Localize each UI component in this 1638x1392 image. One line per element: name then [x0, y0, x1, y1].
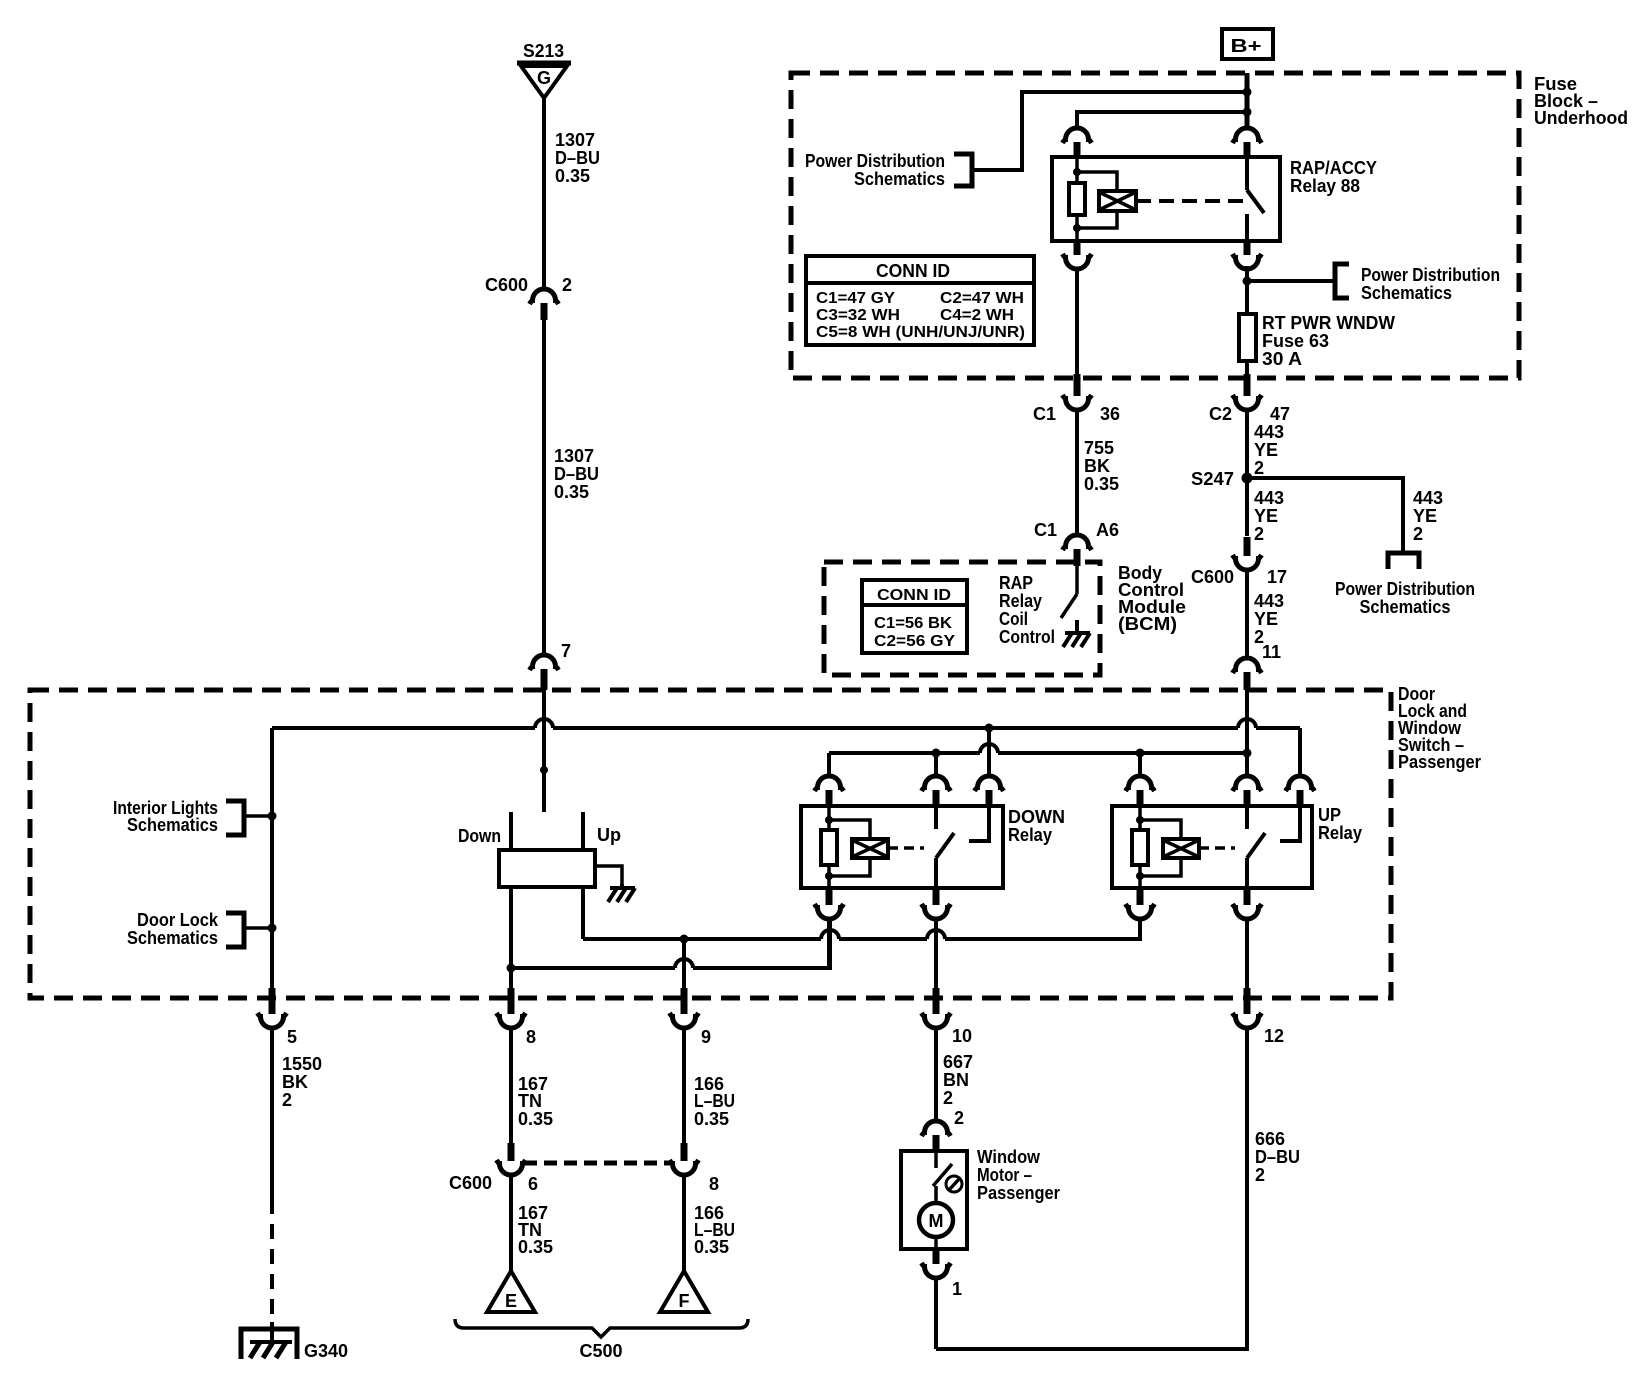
svg-text:C2=47 WH: C2=47 WH: [940, 290, 1024, 307]
battery feed B+: [1222, 29, 1273, 59]
svg-text:Coil: Coil: [999, 609, 1028, 629]
svg-text:CONN ID: CONN ID: [876, 261, 950, 281]
node junction at y=92: [1243, 88, 1252, 97]
wire 1307 D-BU 0.35 (S213 to C600): [544, 98, 600, 290]
svg-text:C3=32 WH: C3=32 WH: [816, 307, 900, 324]
svg-text:Relay: Relay: [999, 591, 1042, 611]
svg-text:Window: Window: [977, 1147, 1041, 1167]
svg-text:Underhood: Underhood: [1534, 108, 1628, 128]
svg-text:(BCM): (BCM): [1118, 614, 1177, 634]
svg-text:8: 8: [526, 1027, 536, 1047]
label Body Control Module (BCM): [1118, 563, 1186, 634]
svg-text:666: 666: [1255, 1129, 1285, 1149]
connector pin 11: [1233, 642, 1282, 690]
svg-text:Schematics: Schematics: [1361, 283, 1452, 303]
connector pin 2 (window motor): [922, 1108, 965, 1152]
svg-text:Down: Down: [458, 826, 501, 846]
svg-text:Relay: Relay: [1318, 823, 1362, 843]
svg-text:CONN ID: CONN ID: [877, 587, 951, 604]
wire DOWN relay coil return: [827, 917, 831, 968]
svg-text:C4=2 WH: C4=2 WH: [940, 307, 1014, 324]
svg-text:1307: 1307: [554, 446, 594, 466]
svg-text:0.35: 0.35: [518, 1237, 553, 1257]
label Interior Lights Schematics: [113, 798, 277, 835]
wire 1307 D-BU 0.35 (C600 to switch): [544, 320, 599, 656]
svg-text:12: 12: [1264, 1026, 1284, 1046]
svg-text:C600: C600: [485, 275, 528, 295]
svg-text:S213: S213: [523, 41, 564, 61]
svg-text:17: 17: [1267, 567, 1287, 587]
svg-text:9: 9: [701, 1027, 711, 1047]
svg-text:C5=8 WH (UNH/UNJ/UNR): C5=8 WH (UNH/UNJ/UNR): [816, 324, 1025, 341]
wire rocker Up output (line3): [583, 887, 1140, 944]
wire 755 BK 0.35: [1077, 408, 1119, 536]
svg-text:755: 755: [1084, 438, 1114, 458]
wire bus to Power Distribution Schematics (left): [974, 92, 1247, 170]
node junction line1/down-relay output: [985, 724, 994, 733]
svg-text:BK: BK: [1084, 456, 1110, 476]
svg-text:443: 443: [1254, 591, 1284, 611]
svg-text:Motor –: Motor –: [977, 1165, 1032, 1185]
svg-text:C2: C2: [1209, 404, 1232, 424]
svg-text:L–BU: L–BU: [694, 1091, 735, 1111]
table CONN ID (BCM): [862, 580, 967, 653]
label Door Lock and Window Switch - Passenger: [1398, 684, 1481, 772]
svg-text:S247: S247: [1191, 469, 1234, 489]
svg-text:0.35: 0.35: [694, 1237, 729, 1257]
svg-text:7: 7: [561, 641, 571, 661]
svg-text:2: 2: [954, 1108, 964, 1128]
wire B+ feed into fuse block: [1245, 73, 1250, 130]
ground (rocker): [620, 884, 624, 888]
svg-text:36: 36: [1100, 404, 1120, 424]
relay UP Relay: [1112, 728, 1362, 919]
svg-text:E: E: [505, 1291, 517, 1311]
svg-text:RAP/ACCY: RAP/ACCY: [1290, 158, 1377, 178]
svg-text:RAP: RAP: [999, 573, 1033, 593]
module Body Control Module (BCM) dashed outline: [824, 562, 1100, 675]
svg-text:UP: UP: [1318, 805, 1341, 825]
svg-text:YE: YE: [1413, 506, 1437, 526]
svg-text:443: 443: [1254, 422, 1284, 442]
connector pin 8: [497, 988, 537, 1047]
svg-text:C600: C600: [1191, 567, 1234, 587]
svg-text:TN: TN: [518, 1091, 542, 1111]
wire bus to relay outputs (line1): [272, 719, 1300, 728]
wire jumper inside C600: [524, 1161, 670, 1166]
connector pin 9: [670, 988, 712, 1047]
svg-text:A6: A6: [1096, 520, 1119, 540]
svg-text:0.35: 0.35: [554, 482, 589, 502]
svg-text:1550: 1550: [282, 1054, 322, 1074]
wire 443 YE 2 (C2-47 to S247): [1247, 408, 1284, 536]
connector C2 pin 47 (fuse block exit): [1209, 374, 1290, 424]
wire left ground bus: [270, 728, 274, 988]
switch RAP relay coil control (BCM internal): [1061, 566, 1077, 618]
connector C600 pin 17: [1191, 537, 1287, 587]
svg-text:C500: C500: [579, 1341, 622, 1361]
svg-text:10: 10: [952, 1026, 972, 1046]
wire DOWN relay output to pin 10: [934, 917, 938, 988]
svg-text:1307: 1307: [555, 130, 595, 150]
node junction to right schematics: [1243, 277, 1252, 286]
connector pin 12: [1233, 988, 1285, 1046]
svg-text:G: G: [537, 68, 551, 88]
wire UP relay coil return: [1138, 917, 1142, 939]
wire power feed pin 11 to relays: [1245, 690, 1249, 755]
svg-text:G340: G340: [304, 1341, 348, 1361]
wire motor return to pin 12: [936, 1026, 1247, 1349]
svg-text:D–BU: D–BU: [555, 148, 600, 168]
svg-text:D–BU: D–BU: [554, 464, 599, 484]
wire branch to Power Distribution Schematics (right): [1247, 264, 1500, 303]
svg-text:0.35: 0.35: [555, 166, 590, 186]
motor Window Motor - Passenger: [901, 1147, 1060, 1249]
svg-text:Schematics: Schematics: [854, 169, 945, 189]
ground G340: [241, 1322, 348, 1361]
door lock and window switch dashed outline: [30, 690, 1391, 998]
svg-text:Schematics: Schematics: [1360, 597, 1451, 617]
svg-text:Power Distribution: Power Distribution: [805, 151, 945, 171]
svg-text:667: 667: [943, 1052, 973, 1072]
connector pin 1 (window motor): [922, 1249, 963, 1299]
ground (BCM internal): [1075, 620, 1079, 633]
svg-text:D–BU: D–BU: [1255, 1147, 1300, 1167]
svg-text:Up: Up: [597, 825, 621, 845]
label Power Distribution Schematics (fuse block left): [805, 151, 972, 189]
wire 166 L-BU 0.35 (lower): [684, 1173, 735, 1271]
svg-text:C1: C1: [1033, 404, 1056, 424]
label Door Lock Schematics: [127, 910, 277, 948]
wire to RAP relay coil: [1077, 112, 1247, 130]
svg-text:Relay: Relay: [1008, 825, 1052, 845]
svg-text:C1=56 BK: C1=56 BK: [874, 615, 952, 632]
node splice S247: [1191, 469, 1253, 489]
svg-text:443: 443: [1413, 488, 1443, 508]
ground destination triangle E: [487, 1271, 535, 1312]
svg-text:2: 2: [562, 275, 572, 295]
switch window rocker Down/Up: [458, 812, 622, 887]
svg-text:C1: C1: [1034, 520, 1057, 540]
svg-text:2: 2: [1254, 458, 1264, 478]
wire line2 coil feed bus: [829, 744, 1252, 758]
label Fuse Block - Underhood: [1534, 74, 1628, 128]
connector pin 10: [922, 988, 973, 1046]
wire 167 TN 0.35 (lower): [511, 1173, 553, 1271]
wire 666 D-BU 2: [1255, 1129, 1300, 1185]
table CONN ID (fuse block): [806, 256, 1034, 345]
svg-text:0.35: 0.35: [518, 1109, 553, 1129]
connector C600 pin 8: [670, 1143, 720, 1194]
connector bracket C500: [455, 1319, 748, 1361]
svg-text:Power Distribution: Power Distribution: [1335, 579, 1475, 599]
connector C600 pin 2: [485, 275, 572, 320]
fuse RT PWR WNDW Fuse 63 30 A: [1239, 313, 1395, 376]
relay RAP/ACCY Relay 88: [1052, 128, 1377, 269]
svg-text:30 A: 30 A: [1262, 349, 1302, 369]
ground S213 (G) triangle: [517, 41, 571, 98]
svg-text:Door Lock: Door Lock: [137, 910, 219, 930]
svg-text:2: 2: [1254, 524, 1264, 544]
svg-text:6: 6: [528, 1174, 538, 1194]
connector pin 7: [530, 641, 572, 690]
connector C1 pin 36 (fuse block exit): [1033, 374, 1120, 424]
wire to connector 9: [682, 939, 686, 988]
svg-text:C600: C600: [449, 1173, 492, 1193]
svg-text:YE: YE: [1254, 609, 1278, 629]
svg-text:47: 47: [1270, 404, 1290, 424]
svg-text:C1=47 GY: C1=47 GY: [816, 290, 895, 307]
svg-text:RT PWR WNDW: RT PWR WNDW: [1262, 313, 1395, 333]
svg-text:Schematics: Schematics: [127, 928, 218, 948]
wire RAP coil control output: [1075, 267, 1079, 376]
svg-text:Passenger: Passenger: [977, 1183, 1060, 1203]
svg-text:11: 11: [1262, 642, 1281, 662]
svg-text:2: 2: [943, 1088, 953, 1108]
wire UP relay output to pin 12: [1245, 917, 1249, 988]
ground destination triangle F: [660, 1271, 708, 1312]
wire 667 BN 2: [936, 1026, 973, 1122]
svg-text:DOWN: DOWN: [1008, 807, 1065, 827]
svg-text:443: 443: [1254, 488, 1284, 508]
wire RAP switch output: [1245, 266, 1249, 314]
wire rocker Down output: [507, 887, 831, 988]
svg-text:0.35: 0.35: [694, 1109, 729, 1129]
svg-text:8: 8: [709, 1174, 719, 1194]
label RAP Relay Coil Control: [999, 573, 1055, 647]
wire 167 TN 0.35 (upper): [511, 1026, 553, 1143]
svg-text:0.35: 0.35: [1084, 474, 1119, 494]
svg-text:Passenger: Passenger: [1398, 752, 1481, 772]
fuse block dashed outline: [791, 73, 1519, 378]
wire 166 L-BU 0.35 (upper): [684, 1026, 735, 1143]
svg-text:C2=56 GY: C2=56 GY: [874, 633, 955, 650]
connector C1 pin A6 (BCM): [1034, 520, 1119, 566]
svg-text:Power Distribution: Power Distribution: [1361, 265, 1500, 285]
svg-text:BK: BK: [282, 1072, 308, 1092]
svg-text:Control: Control: [999, 627, 1055, 647]
relay DOWN Relay: [801, 728, 1065, 919]
svg-text:1: 1: [952, 1279, 962, 1299]
svg-text:YE: YE: [1254, 440, 1278, 460]
wire 1550 BK 2: [272, 1026, 322, 1322]
wire branch 443 YE 2 to Power Distribution Schematics: [1247, 478, 1475, 617]
svg-text:2: 2: [1255, 1165, 1265, 1185]
svg-text:M: M: [929, 1211, 944, 1231]
wire into rocker switch common: [540, 690, 548, 812]
svg-text:YE: YE: [1254, 506, 1278, 526]
svg-text:F: F: [679, 1291, 690, 1311]
svg-text:BN: BN: [943, 1070, 969, 1090]
node junction at y=112: [1243, 108, 1252, 117]
svg-text:2: 2: [1413, 524, 1423, 544]
svg-text:Fuse 63: Fuse 63: [1262, 331, 1329, 351]
svg-text:B+: B+: [1231, 36, 1262, 56]
wire 443 YE 2 (C600 to switch pin 11): [1247, 568, 1284, 659]
svg-text:Schematics: Schematics: [127, 815, 218, 835]
svg-text:5: 5: [287, 1027, 297, 1047]
wire 443 YE 2 (S247 to C600): [1254, 488, 1284, 544]
connector pin 5: [258, 988, 298, 1047]
svg-text:Relay 88: Relay 88: [1290, 176, 1360, 196]
connector C600 pin 6: [449, 1143, 538, 1194]
svg-text:2: 2: [282, 1090, 292, 1110]
